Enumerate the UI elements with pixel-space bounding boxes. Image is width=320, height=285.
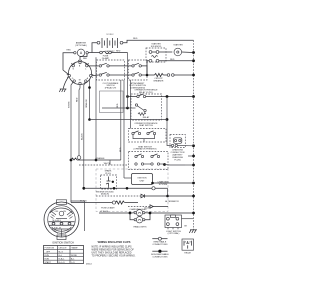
svg-text:M+G: M+G [59, 251, 64, 253]
svg-text:RED: RED [116, 51, 121, 53]
svg-text:03614: 03614 [86, 264, 93, 266]
attachment clutch switch dashed box [129, 60, 148, 90]
starter solenoid K1 [146, 43, 166, 63]
svg-text:(OPTIONAL): (OPTIONAL) [75, 44, 87, 47]
svg-text:UNIT: UNIT [140, 180, 146, 182]
seat interlock dashed box 2 [129, 152, 169, 170]
ignition unit box [132, 174, 153, 185]
headlight row wire [99, 212, 130, 214]
svg-text:(BLACK): (BLACK) [101, 193, 109, 196]
ammeter M1 (optional) [74, 41, 89, 56]
seat switch dashed box [129, 129, 167, 143]
svg-text:(OPERATOR PRESENT): (OPERATOR PRESENT) [134, 148, 157, 151]
svg-text:B+L+S: B+L+S [59, 262, 66, 264]
wire opc down [166, 97, 168, 120]
svg-text:RELAY: RELAY [143, 116, 150, 119]
wire y108 through pedal area [102, 107, 128, 109]
junction bus-starter [192, 51, 195, 54]
wire ammeter to key switch B [63, 53, 74, 75]
wire breaker to bus [163, 74, 167, 76]
svg-text:(PEDAL UP): (PEDAL UP) [105, 87, 117, 90]
engine outline [96, 169, 168, 212]
svg-text:NOTE: IF WIRING INSULATED CLIP: NOTE: IF WIRING INSULATED CLIPS [92, 246, 133, 249]
AC lead row [71, 200, 168, 211]
svg-text:TO PROPERLY SECURE YOUR WIRING: TO PROPERLY SECURE YOUR WIRING. [92, 255, 136, 257]
clutch/brake switch dashed box [97, 60, 125, 90]
svg-text:STARTER: STARTER [151, 43, 161, 46]
alternator row [96, 194, 194, 203]
svg-text:WIRING INSULATED CLIPS: WIRING INSULATED CLIPS [98, 240, 131, 244]
svg-text:IGNITION SWITCH: IGNITION SWITCH [52, 242, 74, 245]
wire spark row y188 [84, 187, 168, 189]
svg-text:RELAY: RELAY [184, 252, 191, 255]
wire key L to row1 [88, 65, 99, 67]
opc relay dashed box [131, 94, 162, 120]
wire row1 to corner [141, 66, 147, 75]
svg-text:LT BLUE: LT BLUE [100, 211, 109, 213]
wire row2 mid [109, 74, 132, 76]
wire battery negative to fuse row [92, 43, 97, 53]
wire x167 down [167, 188, 169, 196]
wire ignition unit to bus [153, 182, 194, 184]
svg-text:RED: RED [120, 147, 122, 152]
headlamp L1 [134, 210, 145, 216]
svg-text:STARTER: STARTER [173, 44, 183, 47]
junction x89 y87 [88, 86, 91, 89]
svg-text:B+A+L: B+A+L [59, 257, 66, 260]
headlamp L2 [134, 217, 145, 223]
starter M2 [173, 44, 183, 56]
wire key S down [71, 82, 73, 203]
svg-text:CIRCUIT: CIRCUIT [59, 248, 68, 250]
junction bus-solenoid [192, 59, 195, 62]
junction seat out [163, 163, 166, 166]
fuse F1 20A [100, 51, 112, 60]
wire key right down [90, 77, 91, 120]
wire seat to bus [165, 164, 186, 167]
wire from switch top right [71, 201, 85, 231]
headlight branch wires [131, 212, 134, 214]
charging connection dashed box [170, 135, 194, 148]
svg-text:"MAKE": "MAKE" [71, 247, 78, 250]
wire fuse row [88, 52, 99, 54]
svg-text:ALTERNATOR: ALTERNATOR [165, 200, 179, 203]
junction bus-alt [192, 195, 195, 198]
ignition key switch S1 (schematic) [68, 61, 92, 84]
wire row y119 [90, 119, 168, 121]
wire ignition unit left [124, 177, 132, 179]
junction bus-lights [192, 212, 195, 215]
legend removable connection [152, 237, 168, 246]
svg-text:RUN: RUN [45, 255, 50, 257]
svg-text:RED: RED [170, 59, 175, 61]
svg-text:SYSTEM: SYSTEM [159, 184, 168, 186]
svg-text:BLUE: BLUE [145, 207, 151, 209]
ignition switch back view [44, 200, 79, 240]
svg-text:UNIT, THEY SHOULD BE REPLACED: UNIT, THEY SHOULD BE REPLACED [92, 251, 132, 254]
svg-text:RED: RED [67, 49, 72, 51]
svg-text:PLUG): PLUG) [174, 160, 181, 162]
svg-text:WERE REMOVED FOR SERVICING OF: WERE REMOVED FOR SERVICING OF [92, 250, 135, 252]
svg-text:RELAY (O.P.R.): RELAY (O.P.R.) [139, 91, 154, 94]
wire key A to row2 [92, 74, 99, 77]
spark plug dashed box [101, 170, 117, 190]
svg-text:START: START [45, 261, 52, 264]
vertical harness wires center [120, 80, 122, 160]
svg-text:NONE: NONE [71, 255, 77, 257]
svg-text:IGNITION: IGNITION [137, 177, 147, 179]
opc relay internals [129, 104, 150, 119]
wire solenoid left down to row2 [147, 61, 149, 75]
svg-text:CONNECTIONS: CONNECTIONS [152, 257, 168, 259]
svg-text:FUSE 20 AMP.: FUSE 20 AMP. [101, 207, 115, 210]
svg-text:ORANGE: ORANGE [85, 98, 88, 108]
circuit breaker CB1 [154, 73, 174, 82]
svg-text:ORANGE: ORANGE [96, 157, 106, 160]
battery B1 12VDC [97, 34, 123, 53]
svg-text:RUN: RUN [45, 258, 50, 260]
wire key M down [79, 85, 80, 156]
wire stub box1 top / accessory drop [95, 57, 97, 160]
junction row2 [146, 74, 149, 77]
svg-text:BREAKER: BREAKER [154, 79, 164, 82]
junction x89 y119 [88, 118, 91, 121]
junction spark row [82, 187, 85, 190]
connector on M wire [77, 156, 81, 160]
wire solenoid to starter [159, 51, 172, 53]
ground chassis bottom right [184, 226, 197, 234]
junction opc right [166, 95, 169, 98]
svg-text:RED: RED [117, 103, 119, 108]
junction bus-opc [192, 95, 195, 98]
legend non-removable connection [151, 250, 169, 259]
junction bus-ignunit [192, 182, 195, 185]
wire row1 mid [109, 65, 132, 67]
svg-text:RED: RED [83, 58, 88, 60]
wire lamps to light switch [151, 212, 194, 214]
wire opc down to charging [167, 120, 171, 146]
junction wire-S y160 [70, 159, 73, 162]
wire solenoid coil to bus RED [159, 60, 194, 62]
wire connector x110 [109, 160, 111, 165]
junction bus-charging [192, 144, 195, 147]
light switch box [165, 215, 182, 235]
opc switch 1 [129, 94, 194, 98]
wire key A2 down [84, 82, 86, 188]
svg-text:WHITE: WHITE [69, 101, 71, 108]
ground at key switch G [59, 77, 68, 92]
junction bus-seat [192, 164, 195, 167]
svg-text:WHITE: WHITE [104, 163, 111, 165]
svg-text:CONNECTIONS: CONNECTIONS [152, 244, 168, 246]
svg-text:12 VDC: 12 VDC [106, 34, 114, 36]
wire y166 to bus [185, 164, 194, 166]
wire row y165 [79, 164, 129, 166]
svg-text:POSITION: POSITION [45, 248, 55, 250]
relay pinout box [182, 239, 194, 255]
svg-text:M G A B L: M G A B L [53, 219, 62, 222]
svg-text:20 AMP.: 20 AMP. [102, 57, 110, 60]
wiring note block [92, 240, 136, 257]
wire row2 to breaker [141, 74, 154, 76]
clutch pedal box [100, 91, 124, 113]
svg-text:BLACK: BLACK [81, 133, 84, 140]
svg-text:HEADLIGHTS: HEADLIGHTS [133, 226, 147, 229]
ignition switch table [44, 246, 84, 264]
wire battery positive to right bus (RED) [123, 40, 194, 42]
svg-text:RED: RED [77, 97, 79, 102]
wire starter to bus [182, 51, 194, 54]
wire row y160 [71, 157, 121, 160]
junction bus-breaker [192, 74, 195, 77]
svg-text:RED: RED [133, 38, 138, 40]
svg-text:SEAT SWITCH: SEAT SWITCH [139, 124, 153, 127]
svg-text:(OPTIONAL): (OPTIONAL) [168, 232, 180, 235]
right bus B+ [193, 40, 195, 230]
svg-text:M: M [79, 79, 81, 81]
